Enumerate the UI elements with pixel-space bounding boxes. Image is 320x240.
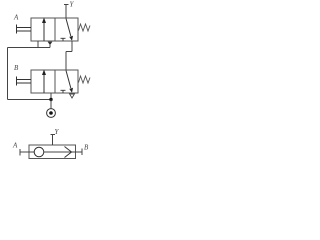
- wire: valve V2 bottom port to node: [50, 93, 52, 100]
- wire: left vertical bus: [7, 48, 9, 100]
- svg-text:B: B: [84, 144, 89, 152]
- svg-text:A: A: [12, 142, 18, 150]
- shuttle valve right seat chevron: [65, 147, 72, 158]
- wire: node down to terminal: [50, 100, 52, 109]
- valve V2 exhaust path diagonal (right cell): [66, 71, 71, 89]
- shuttle valve body: [29, 145, 76, 159]
- svg-text:Y: Y: [70, 1, 75, 9]
- valve V1 spring return: [79, 24, 91, 31]
- junction node dot: [49, 98, 52, 101]
- port Y line (valve V1 output): [64, 5, 69, 19]
- valve V2 exhaust triangle: [70, 94, 75, 98]
- valve V2 flow arrow (left cell, up): [43, 74, 45, 93]
- valve V1 plunger actuator: [17, 25, 32, 34]
- valve V2 body: [31, 70, 78, 93]
- shuttle valve internal line: [29, 151, 76, 153]
- port A wire: [20, 149, 29, 156]
- valve V2 blocked port T (right cell): [61, 90, 66, 93]
- wire: horizontal run to node: [8, 99, 52, 101]
- port B wire: [76, 149, 83, 156]
- valve V2 spring return: [79, 76, 91, 83]
- wire: valve V1 right port jog to valve V2 top port: [66, 41, 72, 70]
- valve V1 flow arrow (left cell, up): [43, 22, 45, 41]
- valve V1 exhaust path diagonal (right cell): [66, 19, 71, 37]
- svg-text:A: A: [13, 14, 19, 22]
- wire: horizontal run under valve V1: [8, 47, 51, 49]
- svg-text:B: B: [14, 64, 19, 72]
- valve V1 exhaust triangle: [48, 42, 53, 46]
- valve V1 blocked port T (right cell): [61, 38, 66, 41]
- shuttle valve ball: [34, 147, 44, 157]
- wire stub below exhaust: [49, 45, 51, 48]
- svg-text:Y: Y: [55, 128, 60, 136]
- valve V2 plunger actuator: [17, 77, 32, 86]
- wire: valve V1 port to left bus: [37, 41, 39, 48]
- valve V1 body: [31, 18, 78, 41]
- terminal connector (circle with dot): [47, 109, 56, 118]
- port Y wire: [51, 135, 56, 146]
